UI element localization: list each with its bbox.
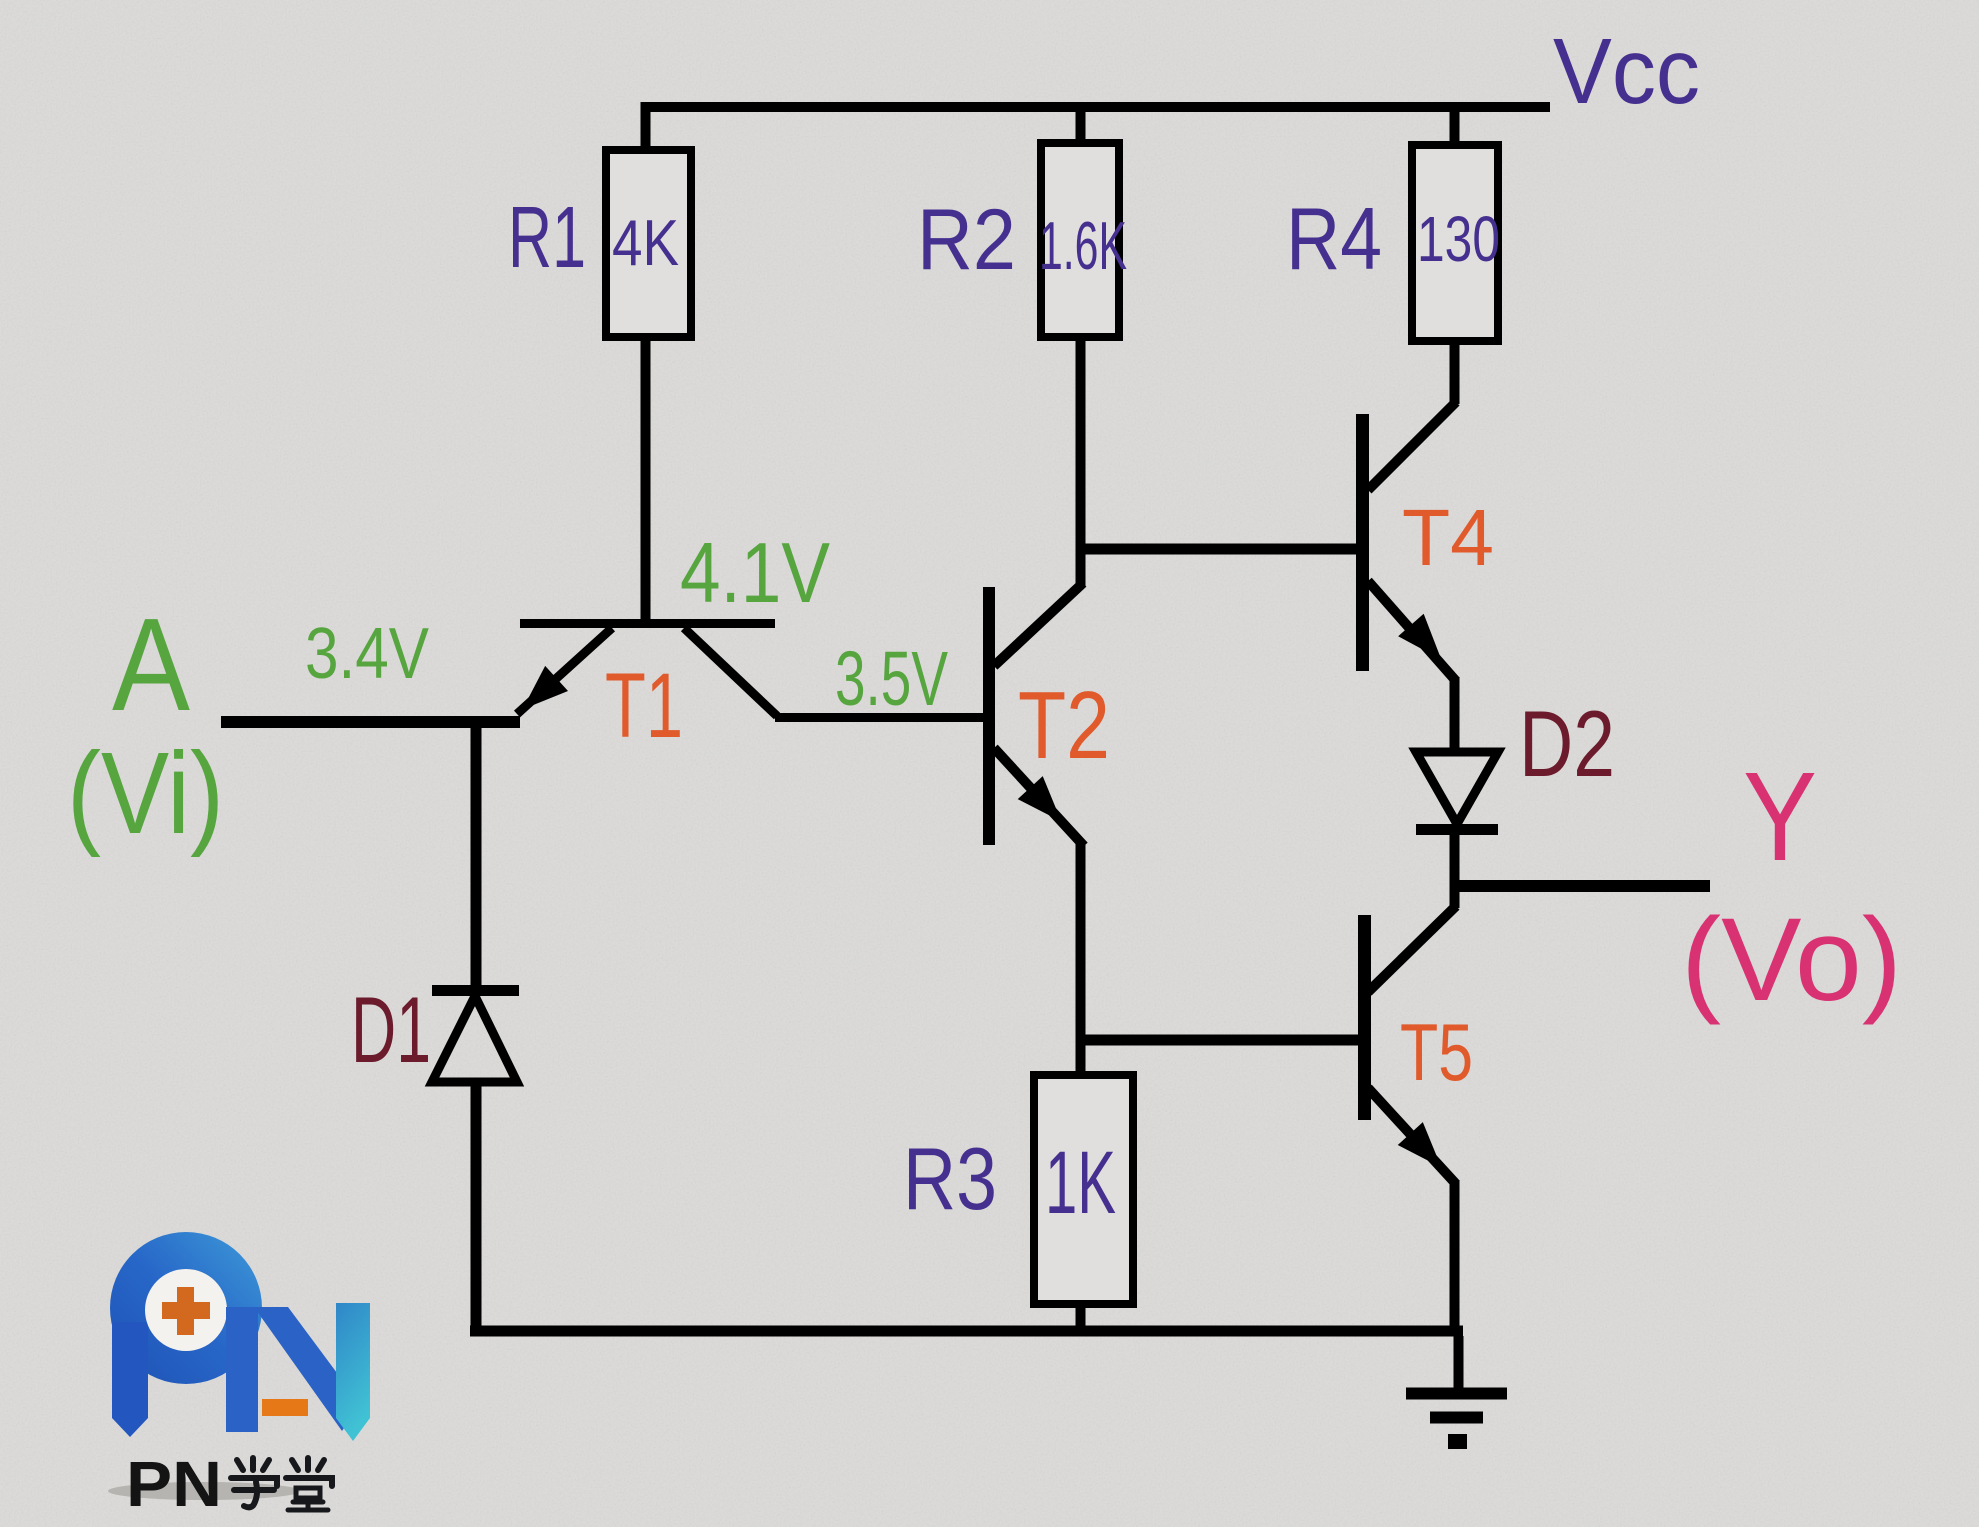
- logo PN circle P: [110, 1232, 370, 1520]
- svg-text:3.4V: 3.4V: [305, 614, 429, 694]
- wire T2 emitter down: [1076, 843, 1086, 1046]
- T5 emitter arrow: [1398, 1122, 1454, 1179]
- svg-text:D2: D2: [1519, 691, 1615, 796]
- diode D1: [432, 717, 519, 1331]
- svg-text:D1: D1: [351, 977, 431, 1082]
- ground: [1406, 1394, 1507, 1442]
- svg-text:Vcc: Vcc: [1553, 19, 1700, 123]
- svg-text:A: A: [112, 591, 190, 738]
- svg-text:R1: R1: [508, 189, 586, 286]
- svg-text:(Vo): (Vo): [1681, 894, 1902, 1026]
- wire ground rail: [470, 1326, 1463, 1337]
- wire R1 to T1 base: [641, 337, 651, 619]
- wire R2 to T2 collector: [1076, 333, 1086, 586]
- wire input A: [221, 716, 520, 728]
- svg-text:T1: T1: [605, 655, 683, 757]
- transistor T5: [1365, 886, 1457, 1331]
- transistor T1: [517, 624, 777, 717]
- resistor R2: [1041, 143, 1119, 337]
- svg-text:R4: R4: [1286, 189, 1382, 288]
- resistor R4: [1412, 145, 1498, 341]
- svg-text:1K: 1K: [1045, 1132, 1116, 1232]
- wire junction to T4 base: [1076, 544, 1362, 555]
- transistor T4: [1363, 402, 1457, 681]
- svg-text:PN: PN: [126, 1448, 222, 1520]
- svg-text:4K: 4K: [612, 206, 679, 279]
- wire Vcc to R1: [641, 102, 651, 150]
- wire R4 to T4 collector: [1450, 341, 1460, 404]
- svg-text:T5: T5: [1400, 1008, 1473, 1098]
- diode D2: [1416, 752, 1498, 891]
- svg-text:R2: R2: [917, 192, 1016, 288]
- svg-text:R3: R3: [903, 1129, 997, 1228]
- svg-text:Y: Y: [1743, 746, 1817, 887]
- wire R3 to ground rail: [1076, 1304, 1086, 1331]
- transistor T2: [989, 583, 1084, 846]
- wire Vcc top rail: [644, 102, 1550, 112]
- logo letter N: [226, 1307, 258, 1432]
- svg-text:130: 130: [1417, 203, 1500, 275]
- svg-text:3.5V: 3.5V: [835, 636, 948, 722]
- T1 emitter arrow: [511, 666, 568, 722]
- svg-text:T4: T4: [1402, 493, 1494, 582]
- wire T1 collector to T2 base: [775, 713, 985, 722]
- resistor R3: [1034, 1075, 1133, 1304]
- logo plus: [162, 1302, 210, 1319]
- resistor R1: [606, 150, 691, 337]
- svg-text:4.1V: 4.1V: [680, 526, 830, 621]
- wire to R3: [1076, 1046, 1086, 1075]
- wire to ground symbol: [1454, 1336, 1464, 1390]
- wire T2 emitter to T5 base: [1076, 1035, 1365, 1046]
- svg-text:T2: T2: [1018, 672, 1110, 779]
- logo shadow: [108, 1482, 300, 1500]
- wire T4 emitter to D2: [1450, 677, 1460, 752]
- T2 emitter arrow: [1018, 776, 1074, 833]
- wire Vcc to R4: [1450, 102, 1460, 145]
- T4 emitter arrow: [1398, 614, 1454, 671]
- wire output Y: [1454, 880, 1710, 892]
- svg-text:(Vi): (Vi): [67, 728, 224, 858]
- wire Vcc to R2: [1076, 102, 1086, 143]
- svg-text:1.6K: 1.6K: [1039, 208, 1127, 284]
- logo minus: [262, 1399, 308, 1416]
